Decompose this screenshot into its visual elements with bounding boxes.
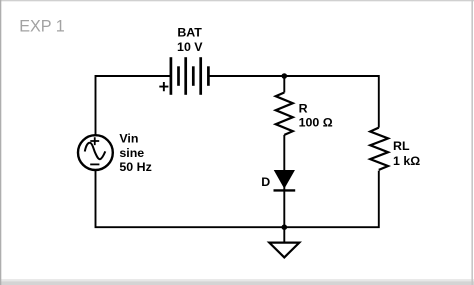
svg-text:RL: RL — [393, 139, 410, 153]
svg-text:sine: sine — [119, 146, 144, 160]
svg-text:R: R — [299, 101, 308, 115]
diode D triangle — [275, 171, 295, 188]
top border — [0, 0, 474, 1]
source V1 circle — [78, 135, 113, 170]
svg-text:50 Hz: 50 Hz — [119, 160, 151, 174]
bottom gray strip — [0, 279, 474, 281]
svg-text:100 Ω: 100 Ω — [299, 116, 333, 130]
resistor R zigzag — [276, 93, 293, 135]
svg-text:1 kΩ: 1 kΩ — [393, 154, 420, 168]
source minus sign — [90, 163, 99, 165]
svg-text:Vin: Vin — [119, 132, 138, 146]
right border — [471, 0, 473, 285]
battery BAT — [171, 57, 209, 95]
wire top-right: battery right terminal to right corner down to RL top — [208, 76, 378, 128]
wire top-left: battery left terminal to left side down to source top — [96, 76, 171, 135]
diode D cathode bar — [274, 189, 296, 191]
svg-text:BAT: BAT — [177, 26, 202, 40]
left border — [0, 0, 1, 285]
ground — [269, 243, 299, 258]
source plus sign — [90, 137, 99, 145]
node A junction dot top — [282, 73, 288, 79]
battery plus sign — [159, 82, 168, 91]
svg-text:10 V: 10 V — [177, 40, 203, 54]
resistor RL zigzag — [370, 128, 388, 170]
wire ground stub — [283, 227, 285, 242]
wire middle branch: node A down through R, diode, to bottom wire — [283, 76, 285, 227]
svg-text:D: D — [261, 175, 270, 189]
svg-text:EXP 1: EXP 1 — [19, 18, 65, 36]
wire bottom loop: RL bottom, bottom wire, left side up to source bottom — [96, 171, 379, 228]
node B junction dot bottom — [282, 224, 288, 230]
source sine wave — [85, 143, 106, 160]
